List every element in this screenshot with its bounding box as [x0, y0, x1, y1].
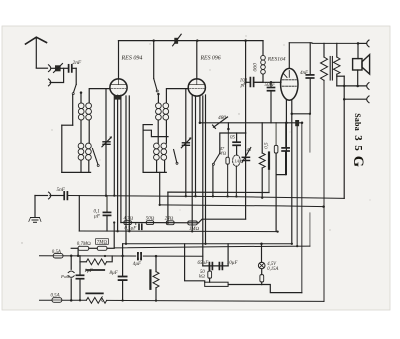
node 100pF tap: [244, 81, 247, 84]
wire secondary top to grid line: [89, 89, 110, 103]
wire bias loop corner x184.5: [185, 244, 205, 282]
output transformer primary zigzag: [321, 57, 328, 80]
output transformer core: [330, 57, 332, 81]
ground: [29, 218, 41, 223]
wire volume pot line y122.8: [200, 122, 302, 124]
svg-text:RES 094: RES 094: [121, 55, 143, 62]
svg-text:060: 060: [253, 63, 259, 72]
wire upper coils to lower coils stage1: [81, 120, 89, 143]
tube V3 RES164: [281, 68, 298, 100]
wire bias riser x114: [113, 223, 115, 248]
node bus / osc switch: [152, 39, 155, 42]
heater winding upper zigzag: [86, 259, 106, 265]
tube1 lead b: [117, 95, 119, 231]
wire bus 246.6: [114, 246, 310, 248]
tube3 lead a: [285, 100, 287, 175]
wire 4nF return to cathode: [292, 113, 310, 115]
resistor 0,7 MOhm box: [71, 246, 89, 250]
wire bracket left stage1: [61, 125, 63, 172]
switch detector: [212, 153, 219, 165]
wire switch down to coil box: [72, 95, 74, 125]
oscillator coil upper right stage2: [163, 103, 169, 120]
tube2 lead e: [205, 95, 207, 244]
wire lower coils to bracket bottom: [81, 160, 89, 172]
wire secondary bridge: [337, 75, 344, 77]
wire resistor row: [121, 222, 199, 224]
wire primary return long vertical x324: [323, 80, 325, 301]
wire return vertical x344: [343, 76, 345, 198]
tube V2 RES 096: [188, 79, 205, 96]
wire between bias resistors: [89, 247, 97, 249]
node bus196 x213: [212, 195, 214, 197]
wire hook stub: [358, 42, 366, 44]
resistor 24 Ohm box: [166, 221, 174, 225]
coupling box on tube1 leads: [115, 95, 122, 100]
node bus243 x205: [204, 243, 206, 245]
wire detector box wiper branch: [227, 129, 229, 157]
capacitor 8uF: [119, 277, 127, 301]
capacitor 10uF: [219, 263, 222, 270]
dial lamp: [258, 262, 265, 269]
wire bus corner down to choke 060: [262, 41, 264, 55]
node pot line left: [199, 122, 202, 125]
wire top output bus: [289, 42, 358, 45]
node bus205 x160: [159, 204, 161, 206]
wire bracket bottom stage1: [62, 171, 91, 173]
cathode bypass electrolytic bar: [268, 153, 270, 193]
antenna: [26, 37, 47, 68]
tube1 lead c: [120, 95, 122, 222]
mains winding lower zigzag in bus: [86, 298, 106, 304]
capacitor 0,1uF branch left: [78, 196, 80, 231]
node bus232 x129: [128, 230, 130, 232]
resistor grid leak (box): [226, 157, 229, 196]
wire hook row 2: [344, 98, 366, 100]
node row222 x114: [113, 221, 115, 223]
resistor 50 Ohm box: [146, 221, 154, 225]
wire output transformer primary riser: [323, 43, 325, 57]
node osc coil top: [157, 93, 160, 103]
capacitor 0,1uF: [103, 196, 110, 231]
wire stage2 secondary top to grid: [166, 89, 188, 103]
tube1 lead d: [125, 96, 127, 244]
wire bias tap riser: [77, 248, 79, 256]
trimmer 45 on AVC vertical: [242, 148, 251, 163]
tube1 lead a: [113, 96, 115, 196]
wire tube2 anode riser: [196, 41, 198, 79]
node x324 bus206: [322, 205, 325, 208]
node bus196 x106: [105, 195, 107, 197]
wire speaker top lead: [357, 43, 359, 58]
node bus243 x292: [291, 243, 293, 245]
node bus196 x114: [113, 194, 115, 196]
resistor 7 MOhm box: [97, 246, 107, 250]
speaker: [353, 55, 370, 74]
wire chassis bus continue: [107, 300, 324, 301]
node bus196 x186: [185, 195, 187, 197]
wire pot wiper stub: [227, 123, 229, 129]
svg-text:05: 05: [230, 136, 236, 141]
detector diode dashed circle: [233, 155, 241, 166]
wire bus 192: [168, 191, 269, 193]
svg-text:Saba: Saba: [353, 113, 362, 131]
node choke tap: [155, 255, 158, 258]
svg-text:µF: µF: [94, 215, 101, 220]
svg-text:4,7Ω: 4,7Ω: [124, 215, 134, 221]
fuse 0,5A bottom: [52, 298, 62, 303]
svg-text:24Ω: 24Ω: [165, 215, 174, 221]
wire secondary down to hook row: [336, 74, 338, 86]
voltage selector hooks: [68, 271, 74, 277]
heater winding upper core bar: [86, 269, 104, 271]
mains wire bottom / chassis bus: [40, 299, 87, 301]
node speaker top terminal: [357, 42, 360, 45]
switch wave-band stage1: [93, 149, 100, 167]
node bus232 x192: [191, 230, 193, 232]
capacitor 0,5uF row: [136, 223, 142, 230]
resistor 4,7 Ohm box: [124, 221, 131, 225]
trimmer capacitor stage1: [102, 136, 112, 147]
wire 100pF left lead: [246, 81, 251, 83]
screen bypass capacitor: [282, 123, 289, 175]
wire electrolytic row: [203, 265, 228, 267]
svg-text:G: G: [350, 156, 366, 167]
wire bracket stage2 top: [143, 130, 168, 136]
wire bus 243.8: [123, 243, 293, 245]
svg-text:Pwld: Pwld: [60, 274, 69, 279]
svg-text:2nF: 2nF: [73, 60, 82, 66]
wire secondary riser: [336, 43, 338, 57]
resistor small on pot line: [295, 120, 299, 246]
node bus / V2 anode: [196, 39, 199, 42]
wire switch down to bus: [212, 166, 214, 197]
svg-text:7MΩ: 7MΩ: [97, 239, 108, 245]
capacitor 5nF: [50, 192, 67, 200]
fuse 0,5A top: [53, 254, 63, 258]
capacitor 4uF series: [136, 253, 143, 260]
cathode resistor zigzag: [259, 123, 265, 198]
svg-text:50nF: 50nF: [265, 83, 277, 88]
node chassis x80: [79, 299, 81, 301]
lower right coil stage1: [86, 143, 92, 160]
field choke core bar: [149, 270, 151, 288]
svg-text:45: 45: [247, 147, 252, 152]
wire row right riser: [227, 244, 229, 266]
node mains selector top: [70, 255, 73, 257]
svg-text:1A: 1A: [234, 159, 239, 164]
node wiper: [227, 128, 230, 131]
hook on chassis bus: [101, 297, 102, 302]
capacitor 0,5 detector: [233, 133, 240, 155]
capacitor 2nF: [69, 65, 77, 72]
svg-text:4nF: 4nF: [300, 71, 309, 76]
wire bracket stage2 left: [142, 125, 144, 173]
node speaker return: [356, 85, 359, 88]
node chassis x122: [121, 299, 123, 301]
wire block to lamp return: [228, 284, 261, 286]
wire osc bracket to bus 205: [159, 172, 161, 205]
node bus196 x262: [261, 197, 263, 199]
svg-text:RES 096: RES 096: [200, 56, 221, 62]
node antenna coil top: [80, 91, 83, 103]
node row222 x167: [167, 222, 169, 224]
node 310 113.8: [309, 113, 311, 115]
wire x302 long drop: [301, 123, 303, 293]
tube2 lead c: [199, 96, 201, 123]
tube2 lead d: [202, 96, 204, 266]
wire phono jack left: [35, 195, 48, 197]
node row232 right: [276, 230, 278, 232]
svg-text:4µF: 4µF: [133, 262, 142, 267]
wire lower coils stage2 to bracket: [157, 160, 165, 172]
wire bracket stage2 bottom: [143, 171, 166, 173]
wire AVC bus 205: [160, 205, 324, 207]
lower left coil stage2: [154, 143, 160, 160]
wire choke bottom to grid cap: [254, 74, 263, 82]
switch wave-band stage2: [174, 150, 178, 165]
svg-text:0,5A: 0,5A: [52, 250, 61, 255]
node bias tap: [77, 255, 80, 257]
wire osc switch riser: [153, 41, 155, 79]
jack hook input 1: [49, 65, 51, 72]
node lamp bus tap: [260, 243, 263, 246]
node cathode 113.8: [291, 113, 294, 116]
wire speaker bottom lead: [357, 70, 359, 86]
wire bracket top stage1: [62, 124, 73, 126]
wire lamp riser: [261, 244, 263, 262]
wire upper winding leads: [80, 256, 112, 262]
svg-text:kΩ: kΩ: [199, 274, 205, 280]
switch oscillator: [154, 79, 159, 93]
oscillator coil upper left stage2: [156, 103, 162, 120]
node bus243 x126: [125, 243, 127, 245]
svg-text:480: 480: [218, 115, 226, 121]
wire top HT bus: [119, 40, 264, 42]
svg-text:5nF: 5nF: [57, 187, 66, 193]
node mains 4uF left: [104, 255, 106, 257]
wire grid return through trimmer stage2: [185, 89, 187, 197]
hook connector output 2: [367, 96, 369, 103]
mains wire top: [40, 255, 203, 257]
wire tube1 anode riser: [118, 41, 120, 79]
svg-text:8µF: 8µF: [110, 271, 119, 276]
wire selector lower: [70, 279, 72, 301]
tube2 lead a: [191, 96, 193, 231]
resistor 50 kOhm box: [208, 266, 212, 282]
wire diode down to bus: [235, 166, 237, 196]
wire bracket stage2 upper stub: [143, 124, 152, 126]
screen resistor box: [274, 123, 278, 175]
node 50nF tap: [270, 81, 273, 84]
node bus196 x227: [226, 195, 228, 197]
node pot line x286: [285, 122, 288, 125]
wire jack2 up to cap node: [50, 68, 64, 82]
svg-text:65µF: 65µF: [198, 261, 210, 266]
wire phono ground drop: [34, 196, 36, 217]
node bus196 x195: [194, 195, 196, 197]
wire lamp return to x302: [262, 285, 302, 293]
wire selector upper: [70, 256, 72, 269]
node bus232 x117: [116, 230, 118, 232]
svg-text:0,7MΩ: 0,7MΩ: [77, 241, 91, 247]
wire hook row 1: [337, 85, 366, 87]
wire screen joint: [276, 175, 286, 232]
trimmer capacitor stage2: [181, 137, 191, 148]
antenna transformer secondary (upper right coil): [86, 103, 92, 120]
svg-text:50Ω: 50Ω: [146, 215, 155, 221]
node hook row2 x344: [343, 98, 346, 101]
node bus196 x236: [235, 195, 237, 197]
wire row to AVC corner: [199, 219, 246, 223]
tube3 lead b: [291, 100, 293, 244]
node bus247 x297: [296, 245, 298, 247]
wire 8uF branch upper: [122, 244, 124, 276]
capacitor 1uF: [76, 256, 83, 300]
wire upper to lower coils stage2: [158, 120, 166, 143]
variable capacitor on bus (tuning gang 1): [173, 34, 182, 46]
wire grid return through trimmer stage1: [105, 89, 107, 196]
node 8uF tap: [121, 255, 124, 258]
node mains selector bottom: [70, 299, 73, 302]
svg-text:RES164: RES164: [267, 55, 286, 62]
wire antenna to input jack: [36, 67, 47, 69]
switch antenna: [72, 84, 76, 94]
hook connector output 1: [367, 83, 369, 90]
lower left coil stage1: [78, 143, 84, 160]
wire grid bus B1: [68, 196, 345, 199]
antenna transformer primary (upper left coil): [78, 103, 84, 120]
output transformer secondary zigzag: [334, 57, 341, 74]
jack hook input 2: [49, 79, 51, 86]
capacitor 100pF: [250, 78, 253, 87]
hook connector top right: [367, 40, 369, 47]
potentiometer 480: [213, 117, 228, 129]
label frame 7MOhm: [96, 239, 109, 245]
mains winding lower core bar: [86, 292, 103, 294]
wire 7M to riser: [107, 247, 114, 249]
resistor 1 MOhm box: [188, 221, 198, 225]
svg-text:0,5A: 0,5A: [51, 294, 60, 299]
lamp series resistor box: [260, 269, 264, 285]
svg-text:0,15A: 0,15A: [267, 267, 278, 272]
capacitor 65uF: [209, 263, 212, 270]
RF choke 060: [261, 55, 266, 74]
wire grid lead to V3: [254, 81, 281, 83]
capacitor 50nF: [268, 82, 275, 123]
svg-text:1µF: 1µF: [85, 269, 94, 274]
antenna trimmer: [52, 64, 68, 73]
node hook row1 x344: [343, 85, 346, 88]
jack hook phono: [49, 192, 51, 199]
tube1 lead e: [128, 96, 130, 231]
wire bus 232: [79, 230, 277, 233]
wire 4nF drop to bus: [309, 114, 311, 246]
scan specks: [21, 35, 370, 243]
wire bus192 corner down: [167, 192, 169, 221]
lower right coil stage2: [161, 143, 167, 160]
capacitor 4nF: [306, 43, 313, 114]
node chassis x156: [155, 299, 157, 301]
tube V1 RES 094: [110, 79, 127, 96]
resistor block long box: [205, 282, 228, 286]
svg-text:0,5: 0,5: [264, 142, 269, 149]
wire detector box top: [220, 133, 246, 153]
field choke zigzag: [153, 256, 159, 301]
wire secondary bottom bend: [337, 74, 344, 86]
wire cap to switch: [75, 68, 77, 84]
node pot line right: [301, 122, 304, 125]
wire AVC long vertical from bus: [244, 39, 247, 219]
wire V3 anode riser: [288, 43, 290, 69]
tube2 lead b: [195, 96, 197, 196]
